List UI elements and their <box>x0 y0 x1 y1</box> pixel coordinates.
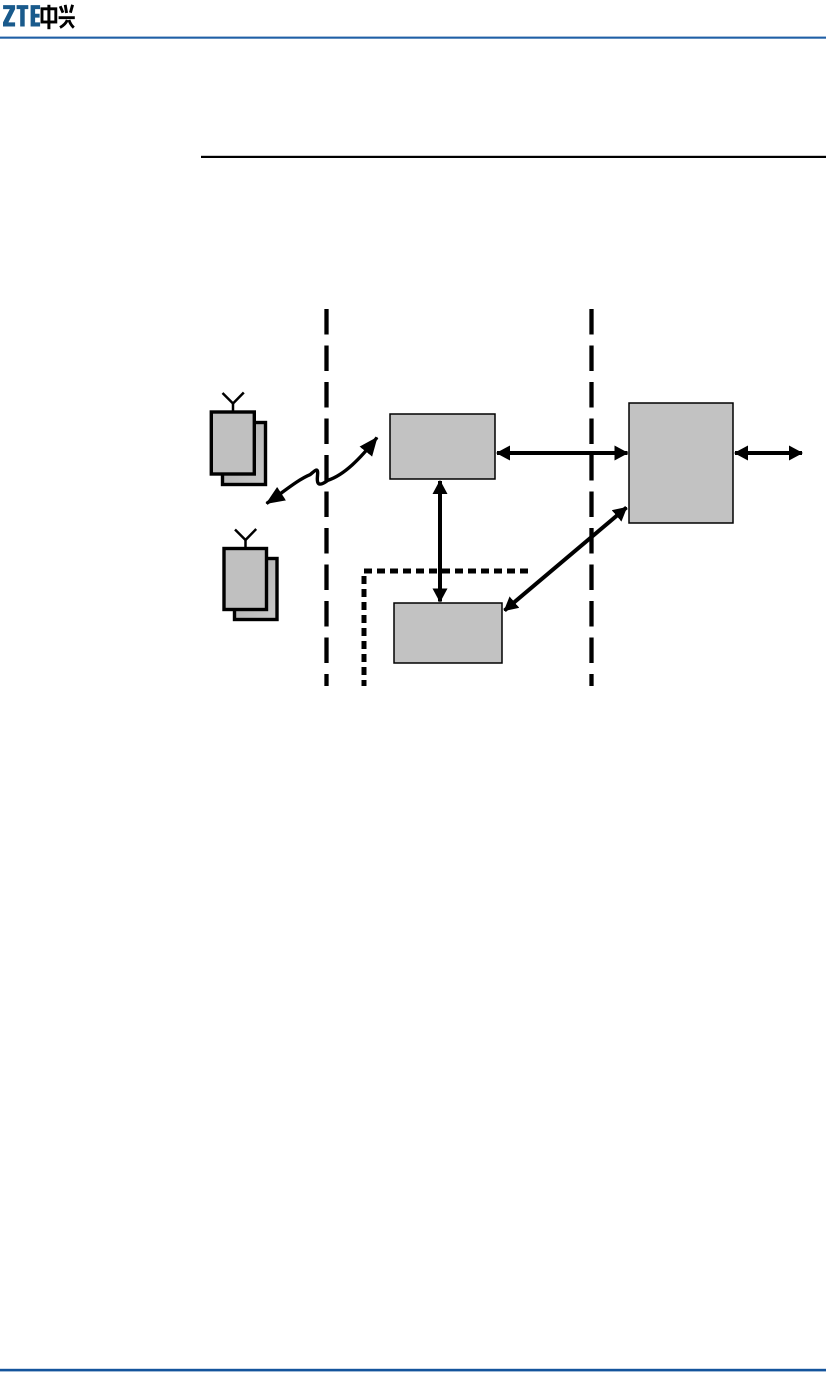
left dashed boundary line <box>324 309 328 686</box>
right dashed boundary line <box>589 309 593 686</box>
logo hanzi XING <box>59 5 75 28</box>
horizontal double arrow A-C <box>497 451 628 455</box>
diagonal double arrow B-C <box>505 508 627 611</box>
title rule <box>201 156 826 158</box>
right external double arrow <box>735 451 802 455</box>
mobile phone icon 2 <box>224 529 277 620</box>
logo hanzi ZHONG <box>42 5 56 29</box>
block box C (right) <box>629 403 733 523</box>
radio link squiggle arrow <box>267 438 378 504</box>
mobile phone icon 1 <box>211 393 265 485</box>
dotted boundary L <box>364 571 528 686</box>
block box A (upper middle) <box>390 414 495 479</box>
footer rule <box>0 1369 826 1372</box>
block box B (lower middle) <box>394 603 502 663</box>
vertical double arrow A-B <box>438 481 442 602</box>
header rule <box>0 37 826 39</box>
ZTE logo blue letters <box>3 5 40 26</box>
